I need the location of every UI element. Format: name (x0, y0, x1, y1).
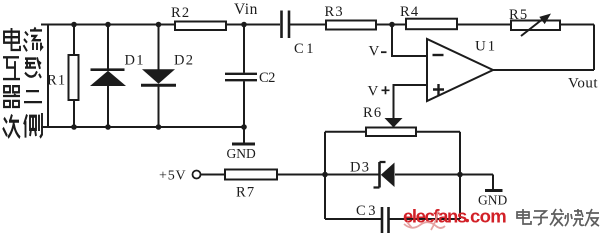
svg-text:C 3: C 3 (356, 203, 375, 219)
友 (585, 209, 599, 226)
svg-text:V: V (369, 43, 380, 59)
svg-text:+5V: +5V (159, 169, 186, 184)
node: left rail junction (322, 172, 328, 178)
svg-text:R 5: R 5 (509, 7, 527, 23)
ground: GND right (478, 175, 507, 208)
label: transformer secondary text 互感 (3, 57, 41, 79)
resistor R3 (325, 4, 377, 30)
terminal: +5V open circle (193, 171, 201, 179)
diode D3 (zener) (350, 160, 395, 188)
op-amp U1 (427, 39, 495, 102)
capacitor C1 (282, 11, 314, 58)
svg-text:Vout: Vout (568, 76, 598, 92)
svg-text:com: com (470, 206, 506, 227)
svg-text:GND: GND (227, 146, 256, 161)
resistor R4 (400, 4, 457, 29)
svg-text:U 1: U 1 (475, 39, 495, 55)
node: R1 top junction (71, 22, 77, 28)
node: right rail junction (457, 172, 463, 178)
电 (517, 209, 531, 224)
svg-text:R 2: R 2 (171, 5, 189, 21)
wire: output (493, 70, 598, 92)
子 (533, 211, 548, 225)
watermark: elecfans.com red text (403, 206, 506, 227)
node: D1 bottom junction (105, 124, 111, 130)
ground: GND below C2 (227, 127, 256, 161)
resistor R2 (171, 5, 226, 30)
node: D2 bottom junction (156, 124, 162, 130)
node: R3-R4 junction (389, 22, 395, 28)
发 (550, 209, 564, 226)
wire: middle rail (R7 to GND branch) (277, 174, 379, 176)
svg-text:R 4: R 4 (400, 4, 419, 20)
label: transformer secondary text 电流 (4, 27, 43, 51)
wire: left rail vertical (324, 132, 326, 219)
watermark: light red script strokes (404, 211, 445, 230)
svg-text:R 7: R 7 (236, 185, 254, 201)
wire: right rail vertical (459, 132, 461, 219)
label: transformer secondary text 次侧 (3, 113, 42, 138)
diode D2 (141, 25, 193, 128)
resistor R1 (47, 25, 79, 128)
wire: top rail (41, 24, 594, 26)
svg-text:R 6: R 6 (363, 105, 381, 121)
wiper arrow of R6 (385, 118, 403, 128)
node: D1 top junction (105, 22, 111, 28)
svg-text:C 1: C 1 (294, 41, 313, 57)
watermark: 电子发烧友 gray text (517, 209, 599, 226)
svg-text:R 3: R 3 (325, 4, 343, 20)
wire: bottom rail (41, 126, 244, 128)
svg-text:D 3: D 3 (350, 160, 369, 176)
svg-text:C2: C2 (259, 70, 275, 86)
resistor R6 (potentiometer) (325, 105, 460, 136)
diode D1 (90, 25, 143, 128)
node: D2 top junction (156, 22, 162, 28)
wire: V+ branch (368, 83, 428, 118)
node: Vin junction (241, 22, 247, 28)
capacitor C3 (325, 203, 460, 233)
烧 (565, 209, 584, 226)
svg-text:Vin: Vin (234, 1, 258, 18)
wire: feedback right vertical (593, 25, 595, 71)
label: transformer secondary text 器二 (3, 86, 42, 107)
wire: left terminal vertical (47, 25, 49, 128)
wire: V- branch (369, 25, 428, 60)
node: R1 bottom junction (71, 124, 77, 130)
capacitor C2 (225, 25, 275, 128)
svg-text:D 2: D 2 (174, 52, 193, 68)
resistor R7 (201, 170, 278, 201)
node: C2 bottom junction (241, 124, 247, 130)
svg-text:D 1: D 1 (125, 52, 144, 68)
svg-text:R 1: R 1 (47, 73, 65, 89)
resistor R5 (variable) (509, 7, 560, 36)
svg-text:V: V (368, 83, 379, 99)
